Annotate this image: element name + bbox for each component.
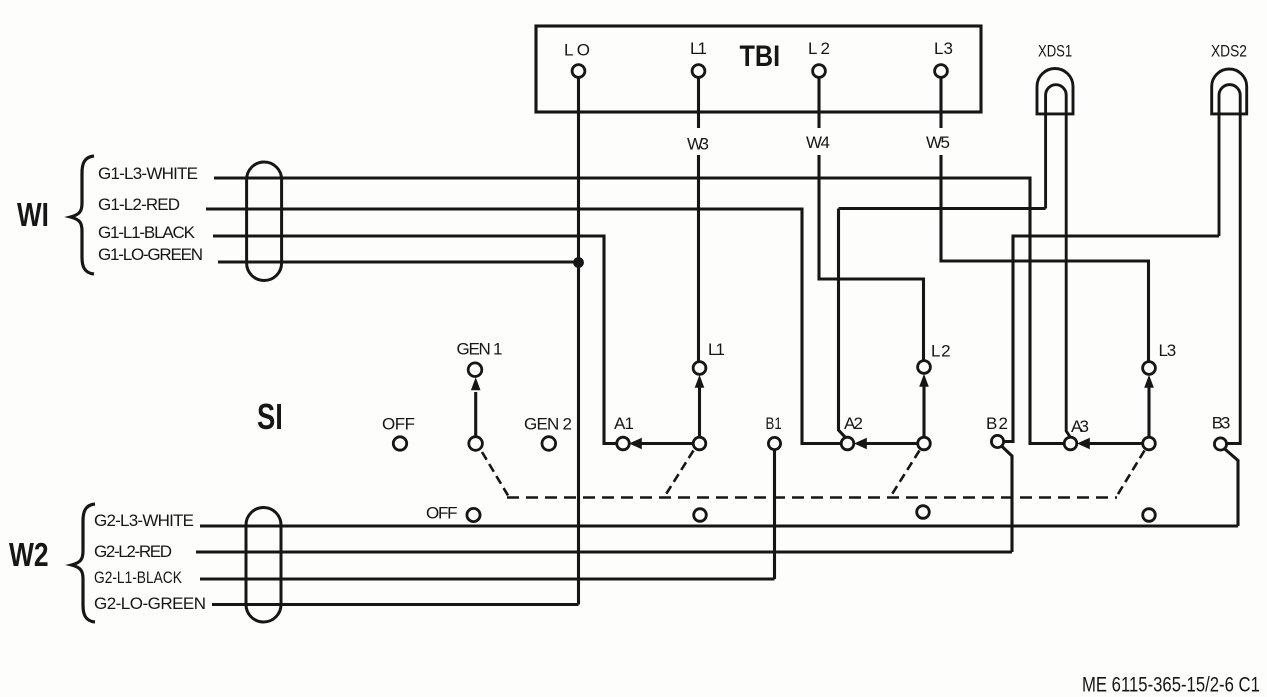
svg-text:L3: L3 — [934, 39, 953, 58]
svg-text:B3: B3 — [1212, 414, 1231, 433]
svg-text:G1-L1-BLACK: G1-L1-BLACK — [98, 223, 196, 242]
svg-text:G1-L3-WHITE: G1-L3-WHITE — [98, 164, 198, 183]
svg-text:TBI: TBI — [740, 39, 781, 73]
svg-text:GEN 2: GEN 2 — [524, 415, 572, 434]
svg-text:A1: A1 — [614, 414, 634, 433]
svg-text:XDS2: XDS2 — [1211, 42, 1247, 61]
svg-text:B1: B1 — [766, 415, 782, 434]
svg-text:W4: W4 — [806, 133, 830, 152]
svg-text:G2-L3-WHITE: G2-L3-WHITE — [94, 511, 194, 530]
svg-text:SI: SI — [257, 396, 283, 437]
svg-text:L2: L2 — [931, 342, 951, 361]
svg-text:OFF: OFF — [426, 504, 458, 523]
svg-text:GEN 1: GEN 1 — [457, 340, 503, 359]
svg-text:G1-L2-RED: G1-L2-RED — [98, 195, 180, 214]
svg-text:L2: L2 — [808, 39, 830, 58]
svg-text:L3: L3 — [1159, 341, 1177, 360]
svg-text:G2-L2-RED: G2-L2-RED — [94, 542, 172, 561]
svg-text:LO: LO — [564, 41, 590, 60]
svg-text:L1: L1 — [690, 39, 707, 58]
svg-text:XDS1: XDS1 — [1038, 42, 1072, 61]
svg-text:WI: WI — [17, 197, 49, 234]
svg-text:W3: W3 — [687, 135, 709, 154]
svg-text:G1-LO-GREEN: G1-LO-GREEN — [98, 245, 203, 264]
svg-text:B2: B2 — [986, 414, 1008, 433]
svg-text:G2-LO-GREEN: G2-LO-GREEN — [94, 594, 206, 613]
svg-text:A3: A3 — [1071, 417, 1089, 436]
svg-text:A2: A2 — [844, 414, 863, 433]
svg-text:L1: L1 — [708, 340, 725, 359]
svg-text:W5: W5 — [926, 133, 950, 152]
svg-text:OFF: OFF — [382, 415, 415, 434]
svg-text:W2: W2 — [9, 537, 49, 573]
svg-text:G2-L1-BLACK: G2-L1-BLACK — [94, 569, 183, 588]
svg-text:ME 6115-365-15/2-6 C1: ME 6115-365-15/2-6 C1 — [1082, 674, 1260, 697]
